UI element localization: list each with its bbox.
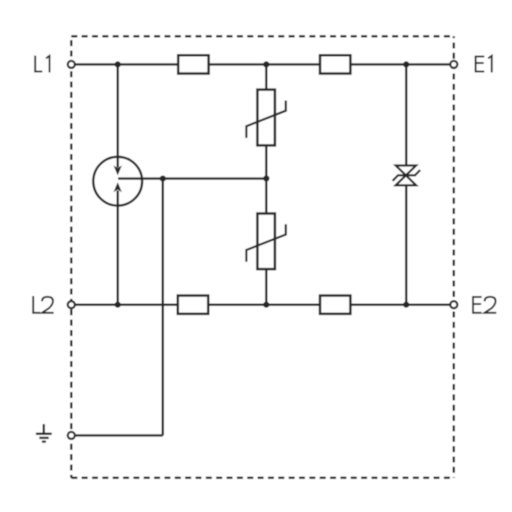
ground symbol bar 3 <box>42 440 46 442</box>
dashed enclosure border top <box>71 35 454 37</box>
wire L2 to E2 <box>71 304 454 306</box>
junction node L2-RV2 <box>263 302 269 308</box>
terminal E1 <box>450 61 457 68</box>
dashed enclosure border bottom <box>71 477 454 479</box>
label E1 <box>476 57 485 72</box>
label L2 <box>33 296 40 313</box>
wire L1 node down through gas discharge tube F1 to L2 <box>116 64 118 167</box>
label E2 <box>473 297 482 313</box>
dashed enclosure border right <box>453 36 455 478</box>
resistor R4 <box>320 296 350 314</box>
gas discharge tube F1 circle <box>93 157 142 206</box>
wire varistor branch vertical <box>265 64 267 304</box>
F1 arrow pointing up to center <box>114 182 122 192</box>
F1 arrow pointing down to center <box>114 165 122 175</box>
wire F1 bottom to L2 <box>116 191 118 305</box>
ground symbol stem <box>43 424 45 434</box>
junction node L1-D1 <box>403 61 409 67</box>
varistor RV2 diagonal stroke <box>246 224 285 261</box>
suppressor diode D1 bottom triangle <box>396 175 416 185</box>
resistor R3 <box>178 296 208 314</box>
label L1 <box>35 56 42 72</box>
junction node L1-RV1 <box>263 61 269 67</box>
junction node L1-F1 <box>115 61 121 67</box>
wire L1 to E1 <box>71 63 454 65</box>
varistor RV1 diagonal stroke <box>246 101 285 138</box>
wire diode branch bottom <box>405 185 407 304</box>
wire node G vertical down to ground wire <box>162 179 164 436</box>
junction node G on F1 center wire <box>160 176 166 182</box>
varistor RV1 body <box>257 90 275 146</box>
ground symbol bar 1 <box>36 433 52 435</box>
wire diode branch top <box>405 64 407 165</box>
terminal E2 <box>450 301 457 308</box>
resistor R2 <box>320 55 350 73</box>
junction node L2-D1 <box>403 302 409 308</box>
wire F1 center to varistor midpoint node <box>118 177 266 179</box>
varistor RV2 body <box>257 214 275 270</box>
resistor R1 <box>178 55 208 73</box>
terminal L2 <box>68 301 75 308</box>
junction node varistor midpoint <box>263 175 269 181</box>
terminal L1 <box>68 61 75 68</box>
dashed enclosure border left <box>70 36 72 478</box>
suppressor diode D1 center bar with hooks <box>393 170 421 181</box>
ground symbol bar 2 <box>39 437 48 439</box>
wire ground terminal to node G <box>71 434 163 436</box>
suppressor diode D1 top triangle <box>396 166 416 176</box>
junction node L2-F1 <box>115 302 121 308</box>
terminal PE <box>68 432 75 439</box>
